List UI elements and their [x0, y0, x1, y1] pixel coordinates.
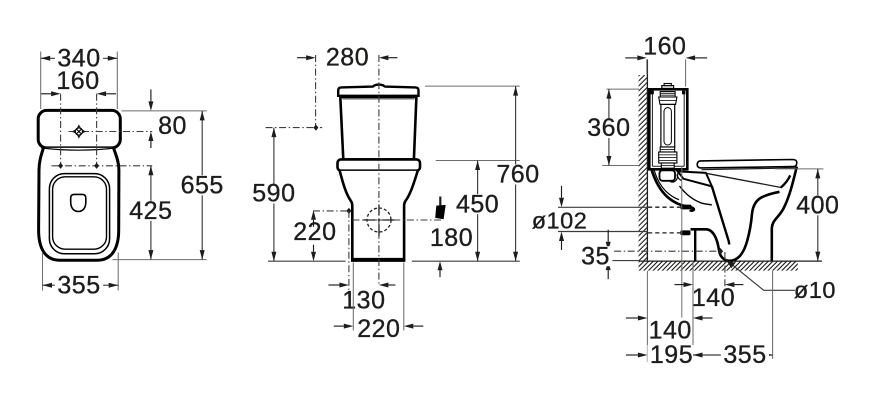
dim 195 — [626, 341, 696, 369]
side view: flush channel inner curve — [654, 170, 679, 200]
front view: left reference dashdot vertical — [315, 55, 317, 128]
dim 130 — [328, 283, 395, 315]
leader o10 arrow — [725, 259, 795, 291]
svg-text:ø102: ø102 — [532, 207, 588, 233]
svg-text:180: 180 — [430, 224, 473, 252]
side view: flush valve top piece — [660, 92, 675, 97]
svg-text:355: 355 — [57, 271, 100, 299]
side view: flush valve tube — [661, 104, 675, 147]
dim 655 bottom extension line — [113, 259, 207, 261]
dim 140 second — [626, 316, 713, 345]
dim 360 top extension line — [607, 88, 640, 90]
toilet top view: flush outlet hole — [71, 194, 86, 211]
dim 220 left — [293, 210, 336, 261]
dim 590 — [250, 128, 298, 262]
svg-text:355: 355 — [723, 341, 766, 369]
toilet top view: cistern outline — [38, 110, 120, 147]
dim 360 bottom extension line — [602, 165, 639, 167]
wall face line — [646, 59, 648, 261]
dim 655 — [178, 111, 226, 260]
dim o102 — [532, 186, 588, 250]
front view: cistern body — [340, 97, 416, 159]
front view: bowl side diamond — [346, 208, 351, 214]
centerline vertical left (160 dim left) — [60, 94, 62, 168]
svg-text:360: 360 — [587, 114, 630, 142]
side view: seat top line — [702, 168, 796, 170]
pedestal extension below floor — [692, 262, 694, 362]
svg-text:140: 140 — [692, 284, 735, 312]
svg-text:140: 140 — [649, 316, 692, 344]
dim 160 — [41, 67, 116, 96]
side view: seat lid — [697, 160, 797, 168]
front view: inlet horizontal centerline — [353, 219, 443, 221]
side view: flush valve lower band — [660, 147, 675, 152]
side view: cistern inner walls — [652, 92, 684, 166]
centerline vertical right (160 dim right) — [96, 94, 98, 168]
dim 80 — [148, 89, 187, 148]
dim 425 — [127, 166, 175, 260]
svg-text:130: 130 — [342, 286, 385, 314]
dim 400 — [794, 169, 842, 261]
svg-text:280: 280 — [326, 44, 369, 72]
svg-text:160: 160 — [643, 32, 686, 60]
front view: bowl rim band — [338, 159, 421, 170]
side view: cistern fixing dots — [650, 91, 685, 95]
dim 220 bottom — [334, 315, 424, 343]
dim 340 extension lines — [41, 52, 118, 110]
side view: bowl outer right profile — [772, 167, 797, 261]
svg-text:195: 195 — [650, 341, 693, 369]
dim 450 top extension line — [436, 160, 520, 162]
svg-text:425: 425 — [129, 197, 172, 225]
front view: left reference dashdot horizontal — [266, 127, 323, 129]
front view: vertical centerline — [378, 55, 380, 286]
side view: bowl rim line — [706, 173, 782, 187]
toilet top view: cistern bottom edge — [41, 148, 116, 150]
side view: inlet spud — [660, 170, 678, 182]
side view: flush valve shoulders — [659, 97, 677, 104]
side view: flush button — [662, 84, 674, 89]
label o10 — [794, 277, 836, 303]
toilet top view: seat outer ring — [49, 174, 109, 254]
dim 355 extension lines — [43, 253, 119, 291]
svg-text:400: 400 — [796, 191, 839, 219]
front view: reference diamond at 590 line — [313, 125, 318, 131]
inlet position target mark — [72, 124, 86, 138]
front view: bowl side dashdot horizontal — [313, 210, 349, 212]
hinge point diamond right — [94, 163, 99, 169]
foot extension below floor — [772, 271, 774, 359]
ground line left segment — [268, 260, 346, 262]
svg-text:760: 760 — [496, 161, 539, 189]
side view: trap center diamond — [718, 248, 723, 254]
svg-text:80: 80 — [158, 112, 187, 140]
side view: hidden outlet upper dashed line — [648, 206, 680, 208]
floor line — [639, 260, 822, 262]
dim 160 extension lines — [647, 59, 686, 86]
dim o102 lower line — [558, 231, 648, 233]
hinge point diamond left — [58, 163, 63, 169]
side view: seat hinge block — [678, 171, 712, 186]
side view: bowl interior funnel line — [712, 186, 729, 244]
dim 35 — [579, 230, 613, 279]
dim 355 right — [693, 341, 773, 369]
dim o102 upper line — [558, 206, 648, 208]
side view: flush valve seals — [659, 152, 677, 163]
wall extension below floor — [646, 271, 648, 362]
svg-text:590: 590 — [252, 180, 295, 208]
front view: bowl body and pedestal — [340, 171, 418, 259]
side view: trap profile — [691, 192, 780, 261]
front view: cistern lid — [338, 85, 418, 96]
side view: pedestal back edge — [694, 230, 696, 261]
dim 655 top extension line — [122, 110, 207, 112]
side view: outlet clamp upper — [680, 205, 691, 210]
floor hatching — [629, 260, 815, 272]
svg-text:450: 450 — [456, 190, 499, 218]
centerline horizontal through inlet mark — [69, 131, 153, 133]
svg-text:160: 160 — [56, 67, 99, 95]
dim 140 first — [675, 282, 744, 312]
dim 760 top extension line — [425, 85, 520, 87]
side view: hinge detail arc — [678, 172, 682, 180]
front view: pedestal bottom edge — [351, 259, 405, 262]
side view: bowl back S-curve — [652, 169, 694, 210]
side view: outlet clamp lower — [680, 230, 690, 235]
svg-text:35: 35 — [581, 242, 610, 270]
side view: hidden outlet lower dashed line — [648, 232, 680, 234]
toilet top view: seat inner ring — [53, 177, 107, 249]
svg-text:655: 655 — [181, 171, 224, 199]
front view: side reference dashdot vertical — [348, 211, 350, 297]
dim 280 — [297, 44, 397, 72]
dim 450 — [454, 161, 502, 262]
dim 220 bottom extension lines — [353, 263, 404, 331]
side view: cistern box — [649, 89, 687, 169]
dim 355 — [43, 271, 119, 299]
dim 760 — [494, 86, 542, 261]
front view: water inlet circle — [364, 205, 395, 236]
side view: seat front edge — [781, 175, 790, 187]
side view: vertical reference gray line — [681, 166, 683, 318]
side view: flush valve base — [661, 163, 674, 168]
svg-text:220: 220 — [293, 218, 336, 246]
ground line right segment — [412, 260, 520, 262]
dim 35 floor extension line — [604, 260, 639, 262]
svg-text:220: 220 — [357, 315, 400, 343]
dim 180 — [430, 224, 473, 277]
side view: bowl inner curve — [680, 186, 712, 205]
toilet top view: bowl outline — [39, 148, 119, 260]
water inlet arrow marker — [435, 197, 446, 220]
dim 160 right — [625, 32, 707, 60]
svg-text:ø10: ø10 — [794, 277, 836, 303]
centerline horizontal seat hinge line — [52, 165, 153, 167]
front view: lid shadow line — [343, 98, 415, 100]
dim 360 — [585, 89, 633, 165]
side view: trap center dashdot — [601, 250, 717, 252]
side view: trap vertical dashdot — [724, 252, 726, 290]
dim 340 — [41, 44, 118, 72]
dim 400 top extension line — [775, 168, 823, 170]
wall hatching — [453, 74, 869, 262]
